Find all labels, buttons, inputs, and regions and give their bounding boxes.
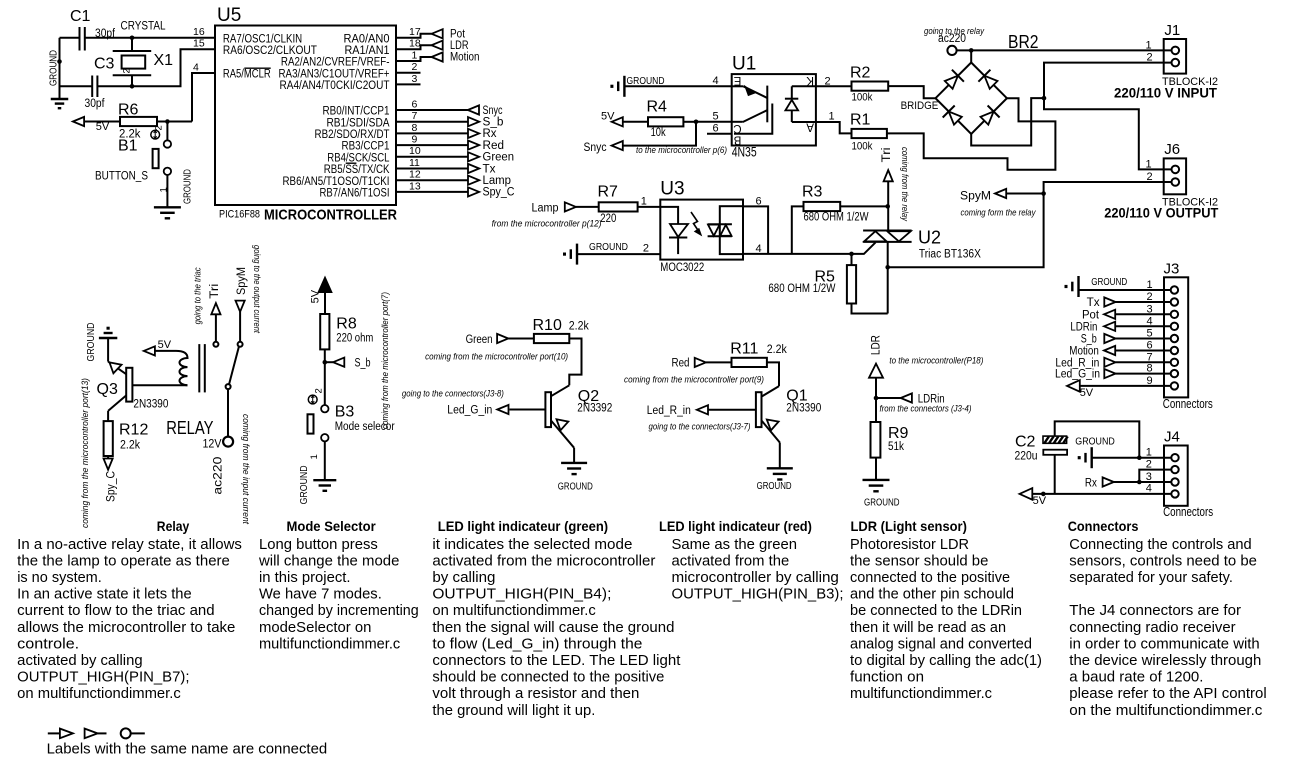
svg-text:modeSelector on: modeSelector on	[259, 620, 371, 636]
svg-text:LDR: LDR	[450, 40, 469, 52]
wire: U5 Pot	[396, 34, 432, 38]
svg-text:Q3: Q3	[97, 381, 118, 398]
wire: U5 pin6 Snyc	[396, 109, 468, 111]
U1 LED diode	[785, 86, 798, 122]
net flag LDRin (R9)	[876, 393, 945, 405]
svg-text:sensors, controls need to be: sensors, controls need to be	[1069, 553, 1257, 569]
net flag Red	[672, 358, 706, 370]
svg-text:to the microcontroller(P18): to the microcontroller(P18)	[889, 356, 983, 367]
wire: junction to bridge top vertex	[970, 50, 972, 62]
svg-text:LDRin: LDRin	[1070, 321, 1097, 333]
wire: U5 Rx	[396, 132, 468, 134]
svg-text:activated from the: activated from the	[672, 553, 790, 569]
svg-text:GROUND: GROUND	[182, 169, 194, 204]
svg-text:30pf: 30pf	[85, 98, 106, 110]
svg-text:6: 6	[756, 196, 762, 208]
wire: ground to J4 pin1	[1092, 457, 1171, 459]
svg-text:PIC16F88: PIC16F88	[219, 209, 260, 221]
svg-text:J1: J1	[1164, 22, 1180, 39]
net flag LDRin (J3)	[1104, 322, 1115, 331]
junction: LDRin	[874, 396, 879, 401]
J4 pin 3 circle	[1171, 478, 1178, 485]
wire: J3 Tx	[1116, 301, 1171, 303]
terminal 12V ac220	[223, 437, 233, 447]
junction: J4 pin1 / C2	[1137, 455, 1142, 460]
svg-text:Pot: Pot	[450, 28, 466, 40]
wire: junction to J6 pin1	[1044, 98, 1172, 169]
svg-text:please refer to the API contro: please refer to the API control	[1069, 686, 1266, 702]
svg-text:U5: U5	[217, 5, 241, 26]
junction: 5V rail	[1041, 492, 1046, 497]
svg-text:1: 1	[1146, 40, 1152, 52]
wire: U1 pin6 stub	[707, 133, 732, 135]
svg-text:OUTPUT_HIGH(PIN_B7);: OUTPUT_HIGH(PIN_B7);	[17, 670, 189, 686]
wire: U1 pin1 (A) to R1	[792, 122, 852, 133]
svg-text:BRIDGE: BRIDGE	[901, 100, 939, 112]
svg-text:ac220: ac220	[213, 457, 225, 495]
J3 pin 2 circle	[1171, 298, 1178, 305]
svg-text:in order to communicate with: in order to communicate with	[1069, 636, 1259, 652]
svg-text:multifunctiondimmer.c: multifunctiondimmer.c	[259, 636, 400, 652]
svg-text:U3: U3	[660, 179, 684, 200]
svg-text:S_b: S_b	[1081, 334, 1097, 346]
svg-text:Tx: Tx	[1087, 297, 1100, 309]
svg-text:CRYSTAL: CRYSTAL	[121, 21, 167, 33]
svg-text:1: 1	[1146, 158, 1152, 170]
svg-text:will change the mode: will change the mode	[258, 553, 399, 569]
net flag Motion	[432, 52, 443, 61]
relay core	[198, 344, 200, 392]
svg-text:on the multifunctiondimmer.c: on the multifunctiondimmer.c	[1069, 703, 1262, 719]
svg-text:4: 4	[713, 75, 719, 87]
junction: R8 / S_b	[323, 360, 328, 365]
svg-text:going to the connectors(J3-7): going to the connectors(J3-7)	[649, 422, 751, 433]
capacitor C3	[85, 56, 115, 111]
svg-text:E: E	[733, 74, 741, 86]
svg-text:Led_R_in: Led_R_in	[647, 405, 691, 417]
wire: Tri flag to contact	[215, 314, 217, 341]
bridge diode D1 (top-left)	[945, 76, 958, 89]
svg-text:3: 3	[412, 73, 418, 85]
svg-text:multifunctiondimmer.c: multifunctiondimmer.c	[850, 686, 992, 702]
J3 pin 1 circle	[1171, 286, 1178, 293]
svg-text:coming from the relay: coming from the relay	[899, 147, 910, 222]
svg-text:R9: R9	[888, 425, 909, 442]
wire: U5 S_b	[396, 121, 468, 123]
net flag Lamp	[532, 202, 577, 214]
svg-text:the ground will light it up.: the ground will light it up.	[432, 703, 595, 719]
svg-text:R3: R3	[802, 184, 823, 201]
junction: ac220 / bridge top	[969, 48, 974, 53]
svg-text:100k: 100k	[852, 141, 873, 153]
net flag Rx	[468, 129, 479, 138]
svg-text:on multifunctiondimmer.c: on multifunctiondimmer.c	[17, 686, 181, 702]
svg-text:GROUND: GROUND	[1075, 436, 1115, 448]
svg-text:from the microcontroller p(12): from the microcontroller p(12)	[492, 219, 602, 230]
svg-text:by calling: by calling	[432, 570, 495, 586]
svg-text:2: 2	[412, 61, 418, 73]
ground (B1)	[154, 206, 181, 208]
svg-text:5V: 5V	[601, 111, 615, 123]
svg-text:a baud rate of 1200.: a baud rate of 1200.	[1069, 670, 1203, 686]
svg-text:Motion: Motion	[1069, 346, 1099, 358]
svg-text:coming from the microcontrolle: coming from the microcontroller port(13)	[80, 378, 91, 528]
net flag Rx (J4)	[1085, 477, 1171, 489]
power flag 5V (R6)	[73, 117, 110, 133]
resistor R12 2.2k	[104, 421, 149, 456]
svg-text:C1: C1	[70, 8, 91, 25]
svg-text:function on: function on	[850, 670, 924, 686]
svg-text:Connecting the controls and: Connecting the controls and	[1069, 537, 1251, 553]
wire: U5 Tx	[396, 168, 468, 170]
svg-text:RB6/AN5/T1OSO/T1CKI: RB6/AN5/T1OSO/T1CKI	[283, 176, 390, 188]
svg-text:LDR (Light sensor): LDR (Light sensor)	[851, 518, 967, 534]
svg-text:2: 2	[154, 125, 165, 130]
J3 pin 3 circle	[1171, 311, 1178, 318]
wire: crystal bottom to U5 pin15	[132, 49, 215, 86]
J3 pin 8 circle	[1171, 370, 1178, 377]
svg-text:2: 2	[122, 68, 133, 73]
svg-text:5V: 5V	[309, 289, 321, 303]
svg-text:B1: B1	[118, 138, 138, 155]
ground (Q2)	[561, 462, 587, 464]
svg-text:17: 17	[409, 26, 421, 38]
wire: U3 pin4 to gate node	[743, 253, 852, 255]
junction: R4 / U1 pin5 / Snyc	[694, 120, 699, 125]
capacitor C1	[70, 8, 116, 51]
svg-text:2N3390: 2N3390	[786, 403, 821, 415]
svg-text:Snyc: Snyc	[483, 105, 503, 117]
net flag Tri (triac)	[881, 147, 893, 181]
overline SS (pin 11)	[346, 162, 357, 164]
svg-text:Led_G_in: Led_G_in	[447, 405, 492, 417]
svg-text:12V: 12V	[203, 439, 222, 451]
svg-text:2N3392: 2N3392	[577, 403, 612, 415]
svg-text:Green: Green	[466, 334, 493, 346]
svg-text:Mode selecor: Mode selecor	[335, 421, 395, 433]
wire: SpyM flag to contact	[239, 312, 241, 342]
svg-text:We have 7 modes.: We have 7 modes.	[259, 587, 382, 603]
net flag LDR	[432, 41, 443, 50]
net flag Snyc	[468, 105, 479, 114]
resistor R2 100k	[850, 65, 888, 104]
net flag Snyc (U1)	[612, 141, 623, 150]
J3 pin 7 circle	[1171, 359, 1178, 366]
svg-text:Spy_C: Spy_C	[106, 471, 118, 502]
svg-text:GROUND: GROUND	[627, 75, 665, 87]
svg-text:Long button press: Long button press	[259, 537, 378, 553]
triac U2 BT136X	[863, 228, 981, 261]
bridge diode D4 (bottom-right)	[981, 112, 994, 125]
svg-text:100k: 100k	[852, 91, 873, 103]
svg-text:Red: Red	[672, 358, 690, 370]
svg-text:from the connectors (J3-4): from the connectors (J3-4)	[880, 404, 972, 415]
relay switch blade	[229, 347, 239, 385]
svg-text:going to the triac: going to the triac	[193, 267, 204, 324]
svg-text:MOC3022: MOC3022	[660, 262, 704, 274]
resistor R11 2.2k	[706, 341, 787, 368]
svg-text:RA1/AN1: RA1/AN1	[345, 45, 390, 57]
svg-text:J6: J6	[1164, 141, 1180, 158]
U3 internal light arrow	[691, 212, 702, 236]
wire: U5 Spy_C	[396, 191, 468, 193]
microcontroller U5 PIC16F88	[215, 26, 396, 206]
transistor Q1 2N3390	[756, 386, 821, 442]
svg-text:B: B	[733, 133, 741, 145]
svg-text:and the other pin schould: and the other pin schould	[850, 587, 1014, 603]
power flag 5V (J4)	[1020, 488, 1047, 507]
svg-text:Photoresistor LDR: Photoresistor LDR	[850, 537, 969, 553]
svg-text:R12: R12	[119, 422, 148, 439]
svg-text:SpyM: SpyM	[960, 191, 991, 203]
svg-text:5: 5	[713, 111, 719, 123]
wire: U5 Red	[396, 144, 468, 146]
net flag Led_R_in	[647, 405, 756, 417]
U3 internal LED	[660, 207, 688, 254]
wire: J6 pin2 to triac node	[888, 182, 1172, 267]
connector J4	[1164, 446, 1188, 506]
wire: J4 pin4 5V rail	[1032, 493, 1171, 495]
J4 pin 4 circle	[1171, 490, 1178, 497]
junction: crystal bottom	[130, 84, 135, 89]
ground (U1 pin4)	[623, 76, 625, 97]
svg-text:Led_G_in: Led_G_in	[1055, 369, 1100, 381]
ground (R9)	[863, 479, 890, 481]
connector J3	[1164, 277, 1188, 397]
relay pivot contact	[226, 384, 231, 389]
svg-text:RA5/MCLR: RA5/MCLR	[223, 69, 271, 81]
ground (U3 pin2)	[576, 244, 578, 265]
net flag Tri (relay contact)	[209, 284, 221, 315]
svg-text:10: 10	[409, 145, 421, 157]
svg-text:R7: R7	[598, 184, 619, 201]
net flag Led_G_in (J3)	[1104, 369, 1115, 378]
svg-text:RB7/AN6/T1OSI: RB7/AN6/T1OSI	[320, 188, 390, 200]
bridge diode D2 (top-right)	[984, 76, 997, 89]
wire: pivot to 12V terminal	[227, 389, 229, 437]
svg-text:6: 6	[412, 98, 418, 110]
svg-text:RB0/INT/CCP1: RB0/INT/CCP1	[323, 106, 390, 118]
wire: junction to U1 pin5	[696, 121, 732, 123]
svg-text:changed by incrementing: changed by incrementing	[259, 603, 419, 619]
svg-text:9: 9	[412, 134, 418, 146]
wire: triac MT1 down	[887, 242, 889, 314]
wire: R8 to B3	[324, 349, 326, 404]
svg-text:microcontroller by calling: microcontroller by calling	[672, 570, 839, 586]
svg-text:18: 18	[409, 38, 421, 50]
wire: B3 to ground	[324, 441, 326, 480]
wire: ground to Q3 emitter	[107, 338, 109, 362]
svg-text:LDR: LDR	[871, 335, 883, 355]
wire: J3 Pot	[1115, 313, 1170, 315]
svg-text:In a no-active relay state, it: In a no-active relay state, it allows	[17, 537, 242, 553]
svg-text:should be connected to the pos: should be connected to the positive	[432, 670, 664, 686]
svg-text:1: 1	[1146, 447, 1152, 459]
wire: B1 to ground	[166, 175, 168, 207]
button B1 (BUTTON_S)	[95, 122, 171, 183]
wire: Q2 emitter to ground	[573, 448, 575, 463]
svg-text:Pot: Pot	[1082, 309, 1100, 321]
svg-text:coming from the microcontrolle: coming from the microcontroller port(10)	[425, 352, 568, 363]
svg-text:GROUND: GROUND	[298, 465, 310, 504]
bridge rectifier BR2 diamond	[936, 63, 1007, 134]
svg-text:GROUND: GROUND	[757, 480, 792, 492]
svg-text:coming from the microcontrolle: coming from the microcontroller port(7)	[380, 292, 391, 429]
svg-text:then the signal will cause the: then the signal will cause the ground	[432, 620, 674, 636]
J3 pin 5 circle	[1171, 335, 1178, 342]
svg-text:15: 15	[193, 38, 205, 50]
svg-text:K: K	[806, 74, 814, 86]
svg-text:GROUND: GROUND	[48, 50, 60, 86]
svg-text:RB5/SS/TX/CK: RB5/SS/TX/CK	[324, 164, 390, 176]
wire: U3 pin6 down to pin4 row	[743, 206, 768, 254]
wire: J3 S_b	[1116, 338, 1171, 340]
svg-text:RA7/OSC1/CLKIN: RA7/OSC1/CLKIN	[223, 33, 302, 45]
svg-text:Connectors: Connectors	[1068, 518, 1139, 534]
svg-text:220u: 220u	[1015, 451, 1038, 463]
wire: C2 top to J4 pin1 node	[1055, 421, 1140, 457]
svg-text:C3: C3	[94, 56, 115, 73]
svg-text:6: 6	[713, 122, 719, 134]
svg-text:16: 16	[193, 26, 205, 38]
wire: crystal top node to U5 pin16	[132, 37, 215, 39]
svg-text:Red: Red	[483, 140, 505, 152]
svg-text:going to the relay: going to the relay	[924, 26, 985, 37]
wire: R1 to bridge right vertex (winding path)	[887, 98, 1056, 170]
svg-text:R2: R2	[850, 65, 871, 82]
J4 pin 1 circle	[1171, 454, 1178, 461]
power flag 5V (R8, filled)	[309, 278, 331, 304]
svg-text:Spy_C: Spy_C	[483, 187, 515, 199]
svg-text:going to the output current: going to the output current	[251, 245, 262, 333]
net flag S_b (mode selector)	[325, 358, 371, 370]
J3 pin 4 circle	[1171, 323, 1178, 330]
wire: ground rail to C3	[60, 85, 93, 87]
svg-text:the device wirelessly through: the device wirelessly through	[1069, 653, 1261, 669]
wire: ground to U1 pin4	[624, 85, 731, 87]
net flag Tx	[468, 164, 479, 173]
svg-text:The J4 connectors are for: The J4 connectors are for	[1069, 603, 1241, 619]
svg-text:the the lamp to operate as the: the the lamp to operate as there	[17, 553, 230, 569]
U1 phototransistor	[732, 86, 773, 134]
net flag Pot (J3)	[1104, 310, 1115, 319]
svg-text:in this project.: in this project.	[259, 570, 351, 586]
junction: Rx / J4 pin3	[1137, 480, 1142, 485]
svg-text:then it will be read as an: then it will be read as an	[850, 620, 1006, 636]
wire: bridge bottom vertex loop to J-junction	[971, 98, 1044, 145]
svg-text:12: 12	[409, 169, 421, 181]
wire: U5 pin3 stub	[396, 83, 421, 85]
transistor Q2 2N3392	[545, 385, 612, 448]
svg-text:volt through a resistor and th: volt through a resistor and then	[432, 686, 639, 702]
resistor R7 220	[576, 184, 660, 226]
wire: C3 to crystal bottom node	[97, 85, 132, 87]
net flag Green	[468, 152, 479, 161]
svg-text:51k: 51k	[888, 441, 904, 453]
svg-text:C: C	[733, 122, 741, 134]
net flag SpyM	[960, 189, 1044, 203]
legend output flag symbol	[48, 729, 73, 739]
svg-text:Triac BT136X: Triac BT136X	[919, 249, 981, 261]
svg-text:5V: 5V	[1033, 495, 1047, 507]
wire: J3 LDRin	[1115, 325, 1170, 327]
net flag Led_R_in (J3)	[1104, 358, 1115, 367]
svg-text:2: 2	[1147, 52, 1153, 64]
wire: Q1 emitter to ground	[779, 443, 781, 469]
ground (Q1)	[767, 467, 793, 469]
U3 internal triac	[708, 206, 743, 254]
svg-text:7: 7	[412, 110, 418, 122]
svg-text:In an active state it lets the: In an active state it lets the	[17, 587, 192, 603]
transistor Q3 2N3390	[97, 362, 169, 411]
net flag Green	[466, 334, 509, 346]
wire: R6 node to U5 pin4	[192, 73, 215, 122]
svg-text:220/110 V OUTPUT: 220/110 V OUTPUT	[1104, 205, 1218, 221]
svg-text:1: 1	[309, 454, 320, 459]
relay contact (Tri side)	[213, 342, 218, 347]
ground (J4 pin1)	[1090, 447, 1092, 468]
svg-text:activated by calling: activated by calling	[17, 653, 142, 669]
svg-text:RA2/AN2/CVREF/VREF-: RA2/AN2/CVREF/VREF-	[281, 57, 390, 69]
wire: Tri flag to triac MT2	[887, 181, 889, 230]
resistor R5 680 OHM 1/2W	[768, 254, 887, 314]
svg-text:U2: U2	[918, 228, 941, 248]
wire: R12 to Spy_C flag	[107, 456, 109, 459]
svg-text:GROUND: GROUND	[85, 322, 97, 361]
svg-text:Mode Selector: Mode Selector	[287, 518, 377, 534]
svg-text:BR2: BR2	[1008, 32, 1039, 52]
bridge diode D3 (bottom-left)	[949, 112, 962, 125]
svg-text:11: 11	[409, 157, 420, 169]
svg-text:RB2/SDO/RX/DT: RB2/SDO/RX/DT	[315, 129, 390, 141]
svg-text:analog signal and converted: analog signal and converted	[850, 636, 1032, 652]
svg-text:1: 1	[829, 111, 835, 123]
button B3 (Mode selecor)	[308, 395, 395, 441]
optocoupler U1 4N35	[732, 74, 816, 145]
wire: J3 Led_G_in	[1116, 373, 1171, 375]
wire: C2 bottom to 5V rail	[1054, 455, 1056, 494]
net flag Spy_C (relay)	[104, 459, 113, 470]
legend terminal symbol	[121, 728, 145, 738]
svg-text:S_b: S_b	[483, 117, 504, 129]
svg-text:680 OHM 1/2W: 680 OHM 1/2W	[804, 212, 869, 224]
svg-text:R4: R4	[647, 99, 668, 116]
ground (Q3 emitter)	[99, 337, 117, 339]
wire: J3 Led_R_in	[1116, 361, 1171, 363]
net flag SpyM (relay contact)	[236, 267, 249, 312]
junction: SpyM	[1041, 191, 1046, 196]
power flag 5V (R4)	[601, 111, 623, 127]
resistor R6 2.2k	[84, 102, 192, 141]
power flag 5V (J3)	[1067, 380, 1094, 399]
svg-text:it indicates the selected mode: it indicates the selected mode	[432, 537, 632, 553]
svg-text:GROUND: GROUND	[1091, 276, 1127, 288]
svg-text:Labels with the same name are: Labels with the same name are connected	[47, 742, 328, 758]
svg-text:R8: R8	[336, 316, 357, 333]
svg-text:RELAY: RELAY	[166, 418, 213, 438]
svg-text:220: 220	[600, 213, 616, 225]
triac gate	[852, 242, 876, 254]
svg-text:B3: B3	[335, 404, 355, 421]
svg-text:2.2k: 2.2k	[767, 344, 787, 356]
svg-text:5V: 5V	[96, 121, 110, 133]
svg-text:RB3/CCP1: RB3/CCP1	[342, 141, 390, 153]
svg-text:Tx: Tx	[483, 163, 496, 175]
svg-text:to the microcontroller p(6): to the microcontroller p(6)	[636, 145, 727, 156]
svg-text:680 OHM 1/2W: 680 OHM 1/2W	[768, 283, 835, 295]
svg-text:R11: R11	[730, 341, 758, 358]
svg-text:Tri: Tri	[209, 284, 221, 299]
